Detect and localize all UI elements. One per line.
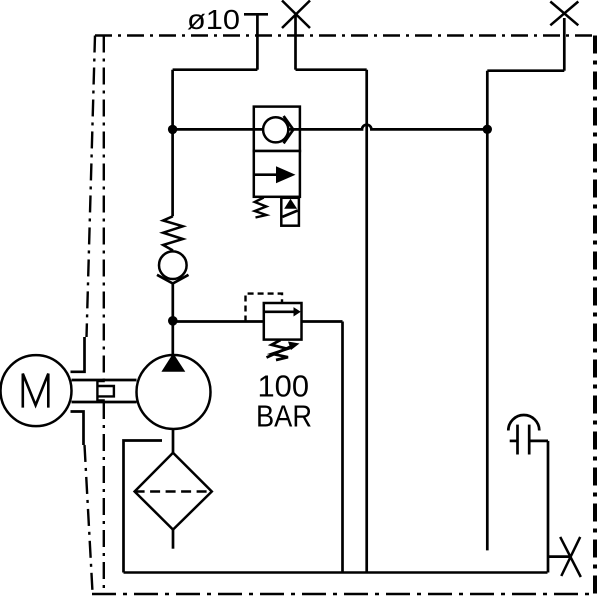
svg-text:ø10: ø10 — [187, 4, 240, 35]
svg-text:BAR: BAR — [256, 399, 312, 433]
